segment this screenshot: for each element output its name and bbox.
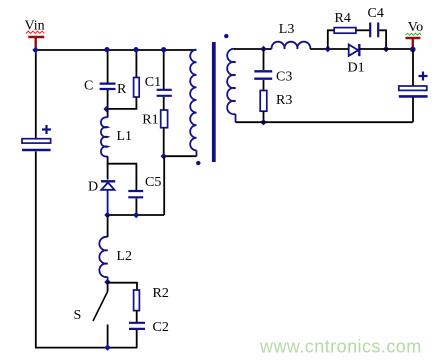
junction R4 branch left xyxy=(325,46,331,52)
diode D triangle xyxy=(101,183,114,190)
junction C R bottom xyxy=(103,106,109,112)
capacitor C4 plates xyxy=(370,23,378,38)
wire L1 top xyxy=(107,109,109,118)
switch S upper stub xyxy=(107,282,109,292)
svg-text:R2: R2 xyxy=(153,286,169,301)
svg-text:R: R xyxy=(117,82,127,97)
transformer primary phase dot xyxy=(196,161,200,165)
wire bottom rail left circuit xyxy=(35,347,137,349)
wire R2 bottom xyxy=(136,311,138,322)
capacitor C plates xyxy=(100,84,116,89)
wire C1 R1 link xyxy=(163,97,165,110)
wire node down to mid rail xyxy=(163,156,165,215)
wire R top xyxy=(135,50,137,78)
node Vin input terminal xyxy=(28,37,44,49)
wire C3 R3 link xyxy=(263,80,265,91)
capacitor input electrolytic bottom plate xyxy=(22,149,51,152)
capacitor C2 plates xyxy=(129,323,145,329)
diode D cathode bar xyxy=(101,180,115,182)
resistor R2 body xyxy=(134,290,140,311)
svg-text:R4: R4 xyxy=(335,11,351,26)
junction R3 bottom rail xyxy=(260,119,266,125)
svg-text:C4: C4 xyxy=(368,6,384,21)
junction S bottom rail xyxy=(104,344,110,350)
capacitor C1 plates xyxy=(157,90,172,96)
junction D bottom xyxy=(104,212,110,218)
inductor L2 coil xyxy=(99,237,107,277)
transformer core bar xyxy=(212,42,216,162)
wire C top xyxy=(107,50,109,83)
wire mid rail D C5 bottom xyxy=(107,214,165,216)
resistor R1 body xyxy=(161,110,168,128)
junction Vo rail xyxy=(410,47,416,53)
wire C bottom xyxy=(107,90,109,109)
svg-text:www.cntronics.com: www.cntronics.com xyxy=(259,337,422,357)
wire R3 bottom xyxy=(263,111,265,122)
svg-text:R3: R3 xyxy=(276,93,292,108)
svg-text:S: S xyxy=(74,308,82,323)
capacitor C3 plates xyxy=(254,71,272,78)
wire primary bottom link xyxy=(164,155,197,157)
junction R1 primary bottom xyxy=(161,153,167,159)
transformer secondary phase dot xyxy=(224,34,228,38)
wire bottom rail right circuit xyxy=(236,121,413,123)
wire R1 bottom xyxy=(163,128,165,157)
junction C5 bottom xyxy=(133,212,139,218)
capacitor input electrolytic plus sign xyxy=(42,125,51,134)
transformer primary coil xyxy=(190,50,196,151)
switch S blade xyxy=(93,292,108,322)
wire C3 top xyxy=(263,49,265,70)
switch S lower stub xyxy=(107,325,109,348)
svg-text:C2: C2 xyxy=(153,320,169,335)
node Vin red squiggle underline xyxy=(26,31,44,33)
wire C5 bottom xyxy=(135,199,137,216)
diode D1 triangle xyxy=(349,45,359,56)
wire R bottom xyxy=(107,97,137,109)
wire C5 branch top link xyxy=(107,164,137,190)
svg-text:R1: R1 xyxy=(142,113,158,128)
svg-text:C: C xyxy=(84,79,93,94)
capacitor output electrolytic top plate xyxy=(399,86,427,90)
svg-text:C5: C5 xyxy=(145,175,161,190)
resistor R4 body xyxy=(334,28,356,34)
node Vo output terminal xyxy=(406,38,421,49)
wire left rail upper xyxy=(35,50,37,139)
junction at Vin corner xyxy=(32,47,38,53)
capacitor output electrolytic bottom plate xyxy=(399,95,428,98)
capacitor C5 plates xyxy=(128,191,143,197)
wire primary coil bottom hook xyxy=(196,150,198,156)
svg-text:C1: C1 xyxy=(145,75,161,90)
junction L2 bottom xyxy=(104,279,110,285)
resistor R3 body xyxy=(260,91,267,112)
wire output cap top xyxy=(412,49,414,86)
junction C4 branch right xyxy=(383,46,389,52)
svg-text:D1: D1 xyxy=(348,61,365,76)
diode D1 cathode bar xyxy=(358,44,360,56)
svg-text:L3: L3 xyxy=(279,22,295,37)
wire top rail left xyxy=(36,49,197,51)
svg-text:C3: C3 xyxy=(276,70,292,85)
wire D bottom xyxy=(107,190,109,215)
wire R4 to C4 xyxy=(356,29,370,31)
svg-text:D: D xyxy=(88,180,98,195)
junction R top rail xyxy=(133,47,138,52)
node Vo green squiggle underline xyxy=(406,33,422,35)
wire L1 bottom to corner xyxy=(107,156,109,163)
capacitor input electrolytic top plate xyxy=(22,139,51,143)
wire C1 top xyxy=(163,50,165,89)
wire L2 bottom xyxy=(107,277,109,282)
wire D1 to Vo xyxy=(359,48,413,50)
junction C1 top rail xyxy=(161,47,166,52)
svg-text:L2: L2 xyxy=(117,249,133,264)
wire L3 to D1 xyxy=(310,48,348,50)
wire R4 branch left vertical xyxy=(328,30,334,49)
wire D anode top xyxy=(107,164,109,180)
wire C2 bottom xyxy=(136,330,138,348)
wire secondary coil bottom hook xyxy=(235,114,237,122)
wire output cap bottom xyxy=(412,98,414,123)
inductor L3 coil xyxy=(272,42,311,49)
capacitor output electrolytic plus sign xyxy=(419,72,428,81)
svg-text:L1: L1 xyxy=(117,129,133,144)
transformer secondary coil xyxy=(227,49,235,114)
resistor R body xyxy=(134,78,140,98)
wire left rail lower xyxy=(35,152,37,348)
wire C4 branch right vertical xyxy=(379,30,386,49)
junction C3 top xyxy=(260,46,266,52)
wire R2 branch top link xyxy=(108,283,137,290)
wire L2 top xyxy=(107,215,109,237)
wire top rail right circuit left part xyxy=(234,48,272,50)
inductor L1 coil xyxy=(101,117,108,156)
junction C top rail xyxy=(104,47,109,52)
